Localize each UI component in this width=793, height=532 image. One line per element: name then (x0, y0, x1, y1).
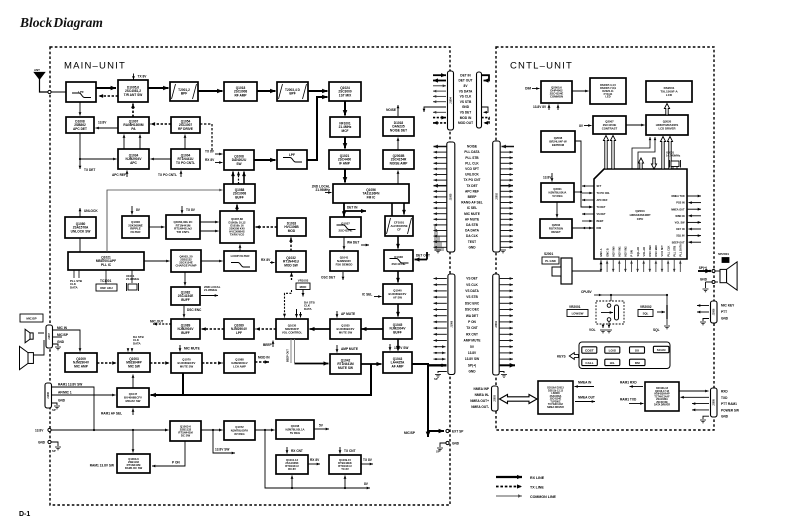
wire det out stub (426, 252, 428, 260)
block NOISE DET D1018 (383, 117, 414, 136)
svg-text:LOW/SW: LOW/SW (572, 312, 584, 316)
svg-text:VS STB: VS STB (460, 100, 472, 104)
block ROTATION RESET Q2002 (540, 219, 572, 238)
wire trcntl to VCO 1 (200, 221, 219, 224)
svg-text:AF SW: AF SW (393, 295, 402, 299)
svg-text:WBN IN: WBN IN (675, 215, 684, 218)
wire 13.8V right2 (500, 352, 513, 355)
connector J2004 (493, 274, 500, 375)
block BPF T2003,4 (277, 82, 308, 101)
svg-text:5V REG: 5V REG (552, 194, 562, 198)
wire TX DET left (434, 184, 447, 188)
svg-text:SQL: SQL (643, 312, 649, 316)
svg-text:PL GND: PL GND (545, 259, 556, 263)
svg-text:PSS IN: PSS IN (676, 202, 684, 205)
wire ptt arrow (697, 311, 709, 314)
svg-text:MIC KEY: MIC KEY (721, 304, 735, 308)
svg-text:VOL SW: VOL SW (675, 222, 685, 225)
wire UNLOCK left (434, 173, 447, 176)
wire TEST left (434, 240, 447, 243)
keys panel (579, 342, 670, 369)
svg-text:CPU5V: CPU5V (581, 290, 593, 294)
svg-text:21.95MHz: 21.95MHz (315, 188, 330, 192)
wire ram af sel up (132, 409, 135, 416)
wire CPU to CONTRAST hollow 2 (610, 136, 615, 170)
svg-text:VS CLK: VS CLK (460, 95, 472, 99)
wire tc1001 up (105, 270, 107, 284)
svg-text:SP(+): SP(+) (468, 363, 476, 367)
svg-text:KEY IN1: KEY IN1 (618, 246, 622, 257)
wire AF MUTE left (434, 218, 447, 221)
wire det to Q1037 (342, 211, 346, 216)
svg-text:PLL STB: PLL STB (465, 156, 479, 160)
wire rx 8v out (308, 463, 320, 466)
svg-text:ENC B: ENC B (605, 248, 609, 256)
svg-text:TX PO CNL: TX PO CNL (597, 192, 611, 195)
svg-text:DA CLK: DA CLK (466, 234, 479, 238)
block TX PO CNTL Q1004 (171, 149, 200, 169)
svg-text:AMP MUTE: AMP MUTE (341, 347, 358, 351)
svg-text:RANG AF SEL: RANG AF SEL (461, 201, 483, 205)
svg-text:KEY IN0: KEY IN0 (611, 246, 615, 257)
svg-text:FSK DEMOD: FSK DEMOD (336, 262, 353, 266)
wire 2nd local arrow (325, 191, 332, 194)
svg-text:TX PO CNTL: TX PO CNTL (158, 173, 177, 177)
svg-text:LPF: LPF (289, 153, 295, 157)
svg-text:J2006: J2006 (713, 308, 716, 315)
svg-text:UNLOCK: UNLOCK (465, 173, 479, 177)
svg-text:DSC DEC: DSC DEC (465, 308, 480, 312)
svg-text:T/R ANT SW: T/R ANT SW (124, 93, 142, 97)
wire CPU to LCDDRV hollow 1 (660, 137, 665, 170)
svg-text:MUTE SW: MUTE SW (338, 366, 353, 370)
wire GND right2 (500, 372, 504, 374)
block BPF T2001,2 (170, 82, 198, 101)
block 5V REG Q1008b (276, 420, 314, 439)
wire pin DET IN arrow (433, 73, 446, 77)
block MIC/AF SW Q1047 (117, 388, 149, 407)
svg-text:TX DET: TX DET (84, 168, 95, 172)
svg-text:TX CNT: TX CNT (344, 449, 356, 453)
svg-text:13.8V: 13.8V (543, 176, 552, 180)
wire TX 8V down (132, 74, 135, 80)
svg-text:EEPROM: EEPROM (552, 143, 565, 147)
svg-text:21.95MHz: 21.95MHz (204, 288, 218, 292)
block BUFF Q1082 (171, 287, 200, 305)
svg-text:DSC ENC: DSC ENC (654, 245, 658, 257)
wire cpu5v bus (602, 294, 667, 296)
svg-text:NOISE AMP: NOISE AMP (390, 161, 409, 165)
wire VS STB left2 (434, 296, 447, 299)
wire loop filter to VCO (239, 245, 242, 252)
svg-text:KEYS: KEYS (557, 354, 566, 358)
svg-text:FM IC: FM IC (367, 195, 376, 199)
svg-text:RX 8V: RX 8V (205, 158, 215, 162)
wire 13.8V SW right2 (500, 358, 513, 361)
wire CPU rpin VOL SW (687, 221, 701, 224)
wire 5vreg down (556, 202, 559, 218)
svg-text:APC REF: APC REF (597, 199, 608, 202)
wire BPF to RF AMP (198, 89, 223, 94)
svg-text:APC DET: APC DET (73, 127, 87, 131)
block NOISE AMP Q2003B (383, 150, 414, 169)
wire mutesw1 to vol (310, 327, 331, 331)
wire cpu5v to sql (666, 295, 668, 305)
wire UNLOCK right (500, 173, 513, 176)
svg-text:BEEP: BEEP (468, 195, 478, 199)
svg-text:RAM1 13.8V SW: RAM1 13.8V SW (58, 383, 82, 387)
svg-text:P ON: P ON (468, 320, 476, 324)
svg-text:CHARGE PUMP: CHARGE PUMP (176, 264, 197, 268)
wire spk1 (38, 332, 44, 334)
svg-text:RX 8V: RX 8V (261, 258, 271, 262)
wire BUFF4 to AF AMP (396, 339, 400, 351)
svg-text:RF AMP: RF AMP (234, 93, 247, 97)
svg-text:J2004: J2004 (495, 321, 498, 328)
svg-text:T/R CNTL: T/R CNTL (176, 230, 189, 234)
svg-text:FILTER: FILTER (131, 230, 142, 234)
wire lpf3 to micbuff dashed (202, 327, 225, 331)
wire APC REF left (434, 190, 447, 193)
svg-text:DM: DM (635, 361, 640, 365)
wire CPU bpin P ON (630, 261, 633, 273)
svg-text:RF DRIVE: RF DRIVE (178, 127, 193, 131)
wire TX PO to APC (151, 158, 172, 161)
wire NOISE AMP to DET (397, 138, 400, 151)
wire pin MOD OUT arrow (433, 121, 446, 125)
wire VS DET right2 (500, 277, 513, 280)
wire encoder to cpu (572, 261, 602, 271)
wire nmea out arrow (575, 400, 595, 403)
svg-text:NOISE: NOISE (467, 145, 477, 149)
block BUFF Q1089 mic (171, 319, 200, 339)
wire RX CNT left2 (434, 333, 447, 336)
wire da mic down2 (131, 348, 134, 352)
svg-text:P ON: P ON (630, 250, 634, 256)
wire rx cnt down (286, 447, 289, 454)
wire WA DET arrow (361, 244, 369, 247)
wire vol to lpf3 dashed (256, 327, 277, 331)
wire gnd ext (440, 443, 446, 447)
wire APC to PA 2 (139, 135, 142, 150)
svg-text:RAM1 DC SW: RAM1 DC SW (125, 466, 143, 470)
wire dsc down (183, 306, 186, 318)
wire FM IC to NOISE AMP (397, 171, 400, 185)
svg-text:WA DET: WA DET (347, 241, 359, 245)
wire reset to cpu (572, 227, 593, 230)
wire CPU rpin NMEA TXD (687, 195, 701, 198)
ground J1005 left (435, 250, 441, 253)
wire ram1 txd arrow (629, 402, 644, 405)
wire CPU bpin KEY IN1 (618, 261, 621, 273)
wire 5vreg right (574, 191, 581, 193)
wire mutesw2 down to af line (182, 373, 184, 395)
wire 8vreg to 5vreg (255, 429, 275, 432)
connector J1006 (448, 274, 455, 375)
svg-text:21.95MHz: 21.95MHz (126, 277, 140, 281)
svg-text:VS DET: VS DET (597, 213, 607, 216)
wire 13.8vsw down (389, 344, 392, 351)
wire tx cnt down (339, 447, 342, 454)
svg-text:DA DATA: DA DATA (465, 229, 479, 233)
wire af mic 1 (52, 394, 116, 397)
wire AF MUTE right (500, 218, 513, 221)
wire BEEP left (434, 196, 447, 199)
wire af mute down (336, 311, 339, 318)
svg-text:BPF: BPF (181, 91, 187, 95)
svg-text:Block Diagram: Block Diagram (19, 15, 103, 30)
svg-text:COST: COST (585, 349, 594, 353)
svg-text:LED: LED (605, 95, 610, 99)
block NMEA DRIVER D2016A (538, 381, 573, 414)
wire CPU rpin WBN IN (689, 214, 702, 217)
wire da2 down (299, 312, 302, 318)
block MOD SW Q1032 (276, 251, 306, 272)
svg-text:PA: PA (131, 127, 136, 131)
wire mic mute down (179, 345, 182, 352)
svg-text:CONTRAST: CONTRAST (602, 126, 618, 130)
svg-text:J2002: J2002 (495, 193, 498, 200)
wire hook VS loop (482, 107, 489, 114)
svg-text:PLL CLK: PLL CLK (465, 161, 479, 165)
wire CPU bpin ENC A (600, 259, 603, 272)
wire SW to LPF2 (254, 158, 276, 163)
wire IC SEL right (500, 207, 513, 210)
block MUTE SW Q1042 (330, 354, 361, 374)
svg-text:13.8V SW: 13.8V SW (394, 346, 408, 350)
svg-text:DET OUT: DET OUT (416, 254, 430, 258)
svg-text:1ST MIX: 1ST MIX (339, 93, 352, 97)
wire LCD driver to LCD hollow (664, 104, 669, 116)
wire CPU pin BEEP (582, 220, 593, 223)
wire PA to APC DET (96, 127, 119, 130)
terminal 13.8V (48, 428, 51, 431)
svg-text:AMP MUTE: AMP MUTE (464, 339, 481, 343)
wire 8V down (131, 206, 134, 215)
wire Q1037 to FSK (343, 237, 346, 250)
svg-text:AF AMP: AF AMP (391, 364, 404, 368)
svg-text:VS CLK: VS CLK (466, 283, 478, 287)
wire CPU bpin KEY IN0 (612, 259, 615, 272)
wire micsw to mutesw2 dashed (150, 361, 170, 365)
svg-text:CNTL–UNIT: CNTL–UNIT (510, 61, 573, 72)
wire CPU bpin PLL DATA (679, 261, 682, 273)
block DATA DRIVER D2016b (645, 382, 679, 411)
wire CPU rpin KEY IN (689, 228, 702, 231)
ground mickey (700, 322, 706, 325)
svg-text:VR2001: VR2001 (569, 305, 581, 309)
wire MOD to VCO dashed (256, 225, 278, 229)
svg-text:TX 8V: TX 8V (205, 150, 215, 154)
key button CALL (582, 359, 598, 365)
wire txd line (681, 396, 710, 399)
svg-text:LO/S: LO/S (609, 349, 616, 353)
wire MIX to MCF (343, 101, 348, 116)
wire rx8v modsw (270, 261, 275, 264)
svg-text:NMEA DRIVER: NMEA DRIVER (547, 406, 564, 409)
block 5V REG Q2001 (541, 183, 574, 202)
block WA DET LPF Q1037 (330, 217, 361, 237)
svg-text:SW: SW (236, 162, 241, 166)
connector J1004 (448, 71, 454, 130)
svg-text:REF ADJ: REF ADJ (100, 286, 113, 290)
wire 5v out (314, 428, 329, 431)
wire NMEA double arrow (500, 395, 538, 404)
ground sql (664, 326, 670, 329)
wire micamp to micsw dashed (97, 361, 117, 365)
svg-text:13.8V: 13.8V (35, 429, 44, 433)
wire pin MOD IN arrow (433, 116, 446, 120)
wire WA DET left2 (434, 314, 447, 317)
svg-text:GND: GND (38, 441, 46, 445)
wire LPF2 to MIX (307, 95, 328, 160)
wire af speaker line (151, 364, 372, 397)
wire x2001 a (672, 167, 674, 170)
svg-text:RXD: RXD (721, 390, 728, 394)
block 1ST MIX Q1024 (329, 82, 361, 101)
block BUFF Q1045 (383, 318, 412, 339)
block LOOP FILTER (224, 251, 256, 271)
svg-text:APC REF: APC REF (465, 189, 479, 193)
wire VS CLK left2 (434, 283, 447, 286)
svg-text:RAM1 13.8V SW: RAM1 13.8V SW (90, 464, 114, 468)
block IF AMP Q1021 (329, 150, 360, 169)
wire spgnd drop (705, 282, 707, 288)
svg-text:TX PO CNTL: TX PO CNTL (176, 161, 195, 165)
wire BEEP right (500, 196, 513, 199)
svg-text:8V REG: 8V REG (234, 432, 244, 436)
wire power sw line (692, 409, 709, 412)
wire APC REF right (500, 190, 513, 193)
svg-text:NMEA OUT-: NMEA OUT- (471, 405, 489, 409)
wire DA DATA left (434, 229, 447, 232)
svg-text:MIC/SP: MIC/SP (57, 333, 69, 337)
wire RF AMP to BPF2 (257, 89, 276, 94)
wire CPU bpin ENC B (606, 261, 609, 273)
wire CPU bpin PLL CLK (667, 261, 670, 273)
svg-text:AF/MIC 1: AF/MIC 1 (58, 391, 72, 395)
wire PLL DATA left (434, 151, 447, 154)
wire CPU pin SFT (582, 185, 594, 188)
wire TX CNT left2 (434, 327, 447, 330)
wire cpu bent to lcddrv 2 (638, 137, 656, 169)
svg-text:RAM1 RXD: RAM1 RXD (620, 381, 637, 385)
wire spgnd to speaker (715, 281, 718, 283)
wire x1001 to pll (131, 270, 133, 283)
wire pin DET OUT arrow (433, 78, 446, 82)
wire TX PO CNTL up (180, 171, 183, 178)
wire ram1 rxd arrow (630, 385, 644, 388)
wire spgnd down (706, 281, 712, 283)
rotary encoder symbol (552, 258, 572, 284)
svg-text:GND: GND (452, 442, 460, 446)
connector J2006 MIC KEY (711, 301, 718, 323)
svg-text:BEEP: BEEP (263, 343, 273, 347)
wire sql gnd (666, 319, 668, 325)
wire DSC DEC right2 (500, 308, 513, 311)
svg-text:BEEP OUT: BEEP OUT (672, 241, 685, 244)
wire DSC ENC right2 (500, 302, 513, 305)
svg-text:BUFF: BUFF (181, 331, 190, 335)
wire CPU rpin BEEP OUT (689, 241, 702, 244)
label X2001 (666, 151, 681, 158)
svg-text:WA DET: WA DET (466, 314, 478, 318)
wire NOISE up (397, 105, 400, 116)
connector J2005 RAM (711, 388, 718, 417)
wire 13.8v sw branch (213, 430, 235, 454)
svg-text:TX LINE: TX LINE (530, 486, 544, 490)
wire CPU bpin DSC DEC (649, 259, 652, 272)
wire P ON right2 (500, 321, 513, 324)
block MCF NF1001 (330, 117, 360, 137)
svg-text:NMEA OUT: NMEA OUT (578, 396, 595, 400)
svg-text:MIC/SP: MIC/SP (404, 431, 416, 435)
wire CPU pin TX DET (582, 206, 593, 209)
svg-text:VS DATA: VS DATA (459, 89, 473, 93)
wire ic sel arrow (374, 295, 382, 298)
wire mutesw2 to lchamp dashed (202, 361, 223, 365)
wire RANG AF SEL left (434, 201, 447, 204)
wire P ON left2 (434, 321, 447, 324)
svg-text:GND: GND (721, 415, 729, 419)
svg-text:PTT RAM1: PTT RAM1 (721, 402, 737, 406)
svg-text:ANT: ANT (34, 68, 40, 72)
svg-text:MCF: MCF (342, 129, 349, 133)
svg-text:DA STB: DA STB (466, 223, 478, 227)
svg-text:BPF: BPF (289, 91, 295, 95)
key button DM (630, 359, 646, 365)
wire TX PO CNT right (500, 179, 513, 182)
svg-text:H/L: H/L (610, 361, 615, 365)
wire CPU rpin SQL IN (687, 234, 701, 237)
wire SP(+) right2 (500, 363, 515, 368)
svg-text:GND: GND (700, 278, 708, 282)
connector J1007 MIC/SP (46, 325, 53, 348)
terminal SP+ (712, 270, 715, 273)
svg-text:MOD IN: MOD IN (258, 356, 270, 360)
svg-text:RX 8V: RX 8V (310, 458, 320, 462)
svg-text:DSC DEC: DSC DEC (648, 245, 652, 257)
svg-text:DET OUT: DET OUT (459, 79, 473, 83)
svg-text:CPU: CPU (637, 217, 644, 221)
block AF AMP Q1043 (383, 352, 412, 373)
terminal GND power (48, 440, 51, 443)
label 2ND LOCAL (312, 185, 331, 193)
svg-text:J1005: J1005 (450, 193, 453, 200)
connector J1008 RAM (45, 383, 52, 408)
wire DA CLK left (434, 235, 447, 238)
svg-text:GND: GND (468, 245, 476, 249)
component TC1001 REF ADJ (96, 284, 117, 291)
wire mod sw to mod dashed (289, 238, 293, 252)
svg-text:TX/RX VCO: TX/RX VCO (230, 233, 245, 237)
wire GND left (434, 246, 447, 249)
svg-text:RAM1 AF SEL: RAM1 AF SEL (101, 412, 122, 416)
wire da mic down1 (127, 348, 130, 352)
wire APC to PA 1 (123, 135, 126, 150)
block PA Q1007 (118, 117, 149, 133)
label MIC/SP boxed (20, 314, 43, 322)
svg-text:MIC MUTE: MIC MUTE (464, 212, 480, 216)
legend COMMON LINE arrow (496, 494, 522, 497)
svg-text:LCD: LCD (666, 93, 673, 97)
key button COST (582, 347, 597, 353)
block VOL CONTROL Q1030 (276, 319, 308, 339)
svg-text:SP: SP (434, 377, 438, 381)
wire PLL STB left (434, 156, 447, 159)
key button SCAN (653, 346, 669, 352)
svg-text:RESET: RESET (551, 230, 561, 234)
